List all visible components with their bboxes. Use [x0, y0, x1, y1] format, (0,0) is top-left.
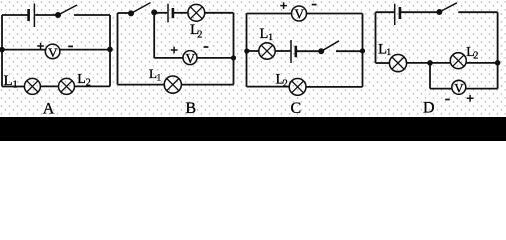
wire C bottom-right: [306, 86, 363, 88]
svg-text:V: V: [294, 7, 304, 22]
wire D right edge: [497, 12, 499, 88]
switch C pivot dot: [318, 48, 324, 54]
wire A left edge: [1, 15, 3, 87]
wire B top-left: [118, 12, 130, 14]
wire voltmeter to right edge B: [197, 57, 234, 59]
svg-text:V: V: [454, 81, 464, 96]
voltmeter B circle: [183, 51, 197, 65]
wire A middle right: [60, 49, 111, 51]
wire C middle to lamp: [247, 50, 259, 52]
wire A middle left: [2, 49, 47, 51]
battery A negative short plate: [27, 9, 30, 21]
wire lamp to battery C: [275, 50, 290, 52]
wire battery to lamp L2 B: [174, 12, 188, 14]
switch D pivot dot: [436, 9, 442, 15]
svg-text:1: 1: [268, 33, 273, 43]
svg-text:L: L: [77, 72, 86, 87]
switch D lever: [439, 3, 457, 12]
wire battery to switch: [35, 14, 57, 16]
wire C left edge: [246, 14, 248, 87]
minus sign D: [445, 99, 450, 101]
battery A positive long plate: [33, 4, 35, 28]
minus sign C: [312, 4, 317, 6]
lamp L1 of C: [259, 43, 275, 59]
svg-text:V: V: [185, 51, 195, 66]
wire switch to top-right corner: [74, 14, 110, 16]
svg-text:B: B: [185, 100, 196, 117]
node C right middle junction: [360, 48, 365, 53]
lamp L1 of A: [24, 78, 40, 94]
wire voltmeter to right corner D: [466, 88, 497, 90]
switch C lever: [321, 41, 339, 52]
plus sign C: [280, 2, 287, 9]
minus sign A: [68, 45, 73, 47]
lamp L2 of C: [289, 79, 306, 96]
svg-text:L: L: [4, 73, 13, 89]
minus sign B: [204, 46, 209, 48]
lamp L1 of D: [389, 55, 406, 72]
switch B pivot dot: [128, 10, 134, 16]
voltmeter A circle: [45, 44, 60, 59]
battery B positive long plate: [167, 4, 169, 23]
wire D middle-left: [376, 62, 390, 64]
svg-text:A: A: [43, 101, 55, 118]
battery D negative short plate: [399, 7, 402, 19]
node D right middle junction: [495, 60, 501, 66]
wire switch to right edge C: [336, 50, 363, 52]
plus sign D: [467, 95, 474, 102]
svg-text:2: 2: [86, 78, 91, 89]
wire C top-right: [306, 13, 362, 15]
background dotted grid: [0, 0, 506, 117]
wire B left edge: [117, 13, 119, 85]
wire between lamps A: [40, 85, 58, 87]
wire B bottom-right: [181, 84, 233, 86]
svg-text:1: 1: [157, 73, 162, 83]
battery D positive long plate: [394, 4, 396, 25]
node A left middle junction: [0, 47, 5, 53]
svg-text:2: 2: [283, 79, 288, 90]
wire A top-left segment: [2, 14, 28, 16]
wire A bottom-right: [75, 85, 111, 87]
black footer bar: [0, 117, 506, 141]
wire lamp1 to junction D: [407, 62, 451, 64]
node C left middle junction: [244, 48, 249, 53]
wire A bottom-left: [2, 86, 24, 88]
wire D branch to voltmeter: [430, 88, 452, 90]
plus sign B: [171, 47, 178, 54]
svg-text:1: 1: [13, 79, 18, 90]
wire battery to switch D: [401, 11, 437, 13]
wire B branch to voltmeter: [154, 57, 183, 59]
switch A lever: [58, 5, 77, 15]
wire lamp2 to right edge D: [466, 62, 498, 64]
node A right middle junction: [107, 47, 113, 53]
voltmeter C circle: [292, 6, 307, 21]
wire D top-left: [376, 11, 395, 13]
wire battery to switch C: [297, 50, 319, 52]
wire D branch vertical left: [429, 63, 431, 89]
lamp L2 of B: [188, 4, 205, 21]
svg-text:1: 1: [386, 48, 391, 58]
wire C bottom-left: [247, 86, 290, 88]
wire switch to battery B: [154, 12, 167, 14]
wire C top-left: [247, 13, 292, 15]
plus sign A: [37, 43, 44, 50]
wire A right edge: [109, 15, 111, 87]
voltmeter D circle: [452, 80, 466, 94]
battery C negative short plate: [294, 46, 297, 58]
node B right junction: [231, 55, 236, 60]
wire B right edge: [233, 13, 235, 85]
svg-text:2: 2: [473, 50, 478, 61]
wire D left edge: [375, 12, 377, 63]
wire B branch vertical: [153, 12, 155, 58]
wire B bottom-left: [118, 84, 165, 86]
battery C positive long plate: [290, 40, 292, 63]
wire B top-right: [205, 12, 234, 14]
wire C right edge: [362, 14, 364, 87]
switch B lever: [131, 3, 151, 14]
lamp L1 of B: [164, 76, 181, 93]
node D middle junction: [427, 60, 433, 66]
switch B right terminal dot / branch junction: [151, 9, 157, 15]
switch A pivot dot: [55, 12, 61, 18]
battery B negative short plate: [172, 8, 175, 18]
svg-text:C: C: [290, 100, 301, 117]
svg-text:D: D: [423, 100, 435, 117]
lamp L2 of A: [59, 78, 75, 94]
svg-text:2: 2: [197, 29, 202, 40]
svg-text:L: L: [260, 26, 269, 42]
wire switch to top-right D: [458, 11, 497, 13]
lamp L2 of D: [450, 53, 466, 69]
svg-text:V: V: [48, 45, 58, 60]
